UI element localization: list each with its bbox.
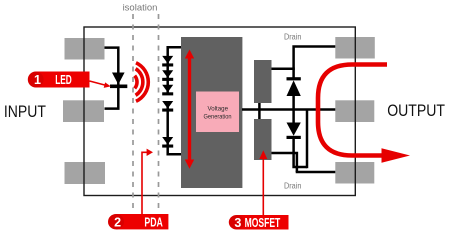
photodiode PD2	[162, 70, 173, 81]
svg-text:MOSFET: MOSFET	[245, 216, 281, 230]
wire: riser from diode junction to gate bus	[306, 110, 309, 169]
callout 2 arrow to PDA	[142, 149, 153, 214]
wire: pad IN1 to LED anode and LED cathode to pad IN2	[105, 48, 119, 109]
light emission arcs from LED	[135, 63, 149, 102]
output current red arrow	[318, 65, 387, 156]
callout 3 MOSFET box	[229, 215, 289, 230]
svg-text:3: 3	[234, 216, 241, 230]
voltage generation block U1	[181, 37, 242, 188]
wire: diode column middle segment	[292, 96, 295, 124]
callout 3 arrow to MOSFET	[259, 150, 267, 215]
photodiode PD5	[162, 137, 173, 148]
svg-text:PDA: PDA	[144, 215, 163, 229]
callout 1 arrow to LED	[90, 81, 111, 88]
photodiode PD1	[162, 56, 173, 67]
body diode D6 (cathode up)	[287, 77, 301, 96]
pad OUT3 (output lead, bottom right)	[335, 162, 374, 184]
pad IN1 (input lead, top left)	[65, 38, 105, 60]
wire: Q1 drain to diode column	[272, 67, 295, 70]
wire: PDA top rail to voltage generation block	[168, 47, 182, 94]
wire: stub bus to MOSFET Q2	[258, 109, 261, 119]
LED D1 (input LED)	[110, 73, 127, 89]
wire: stub bus to MOSFET Q1	[258, 103, 261, 110]
wire: Q2 drain down leg	[272, 153, 297, 172]
body diode D7 (cathode down)	[287, 123, 301, 140]
wire: gate bus from voltage generation to output pad OUT2	[242, 108, 335, 111]
voltage generation pink box	[196, 92, 239, 133]
output current arrowhead	[382, 148, 411, 162]
svg-text:isolation: isolation	[123, 3, 158, 14]
svg-text:LED: LED	[55, 73, 72, 87]
pad IN3 (input lead, bottom left)	[65, 162, 106, 184]
svg-text:Generation: Generation	[204, 113, 232, 120]
wire: PDA lower segment to bottom rail into block	[168, 101, 182, 154]
svg-text:INPUT: INPUT	[4, 103, 46, 121]
wire: drain2 rail to pad OUT3	[296, 171, 336, 174]
wire: diode2 cathode down and across	[294, 138, 307, 167]
callout 2 PDA box	[108, 214, 168, 229]
isolation dashed line right	[158, 14, 160, 209]
package outline	[84, 27, 355, 196]
photodiode PD3	[162, 85, 173, 96]
voltage rise double arrow	[185, 50, 194, 169]
isolation dashed line left	[132, 14, 134, 209]
svg-text:OUTPUT: OUTPUT	[387, 102, 445, 120]
svg-text:Voltage: Voltage	[208, 106, 229, 113]
svg-text:Drain: Drain	[284, 32, 302, 42]
svg-text:Drain: Drain	[284, 180, 302, 190]
pad IN2 (input lead, middle left)	[63, 100, 104, 122]
pad OUT2 (output lead, middle right)	[335, 100, 374, 122]
svg-text:1: 1	[34, 73, 41, 87]
pad OUT1 (output lead, top right)	[335, 37, 375, 59]
callout 1 LED box	[28, 72, 90, 88]
MOSFET Q1	[254, 60, 272, 103]
svg-text:2: 2	[114, 215, 121, 229]
wire: drain1 riser and top rail to pad OUT1	[294, 47, 336, 79]
voltage generation text	[204, 106, 232, 121]
photodiode PD4	[162, 101, 173, 112]
MOSFET Q2	[254, 119, 272, 160]
